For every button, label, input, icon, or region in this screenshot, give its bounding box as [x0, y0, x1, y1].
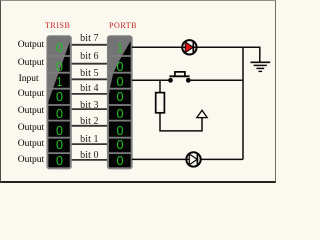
- label Input bit5: [19, 75, 39, 85]
- wire bit2 line TRISB-PORTB: [71, 125, 107, 127]
- value TRISB bit6 = 0: [49, 60, 69, 73]
- LED D2 (off): [186, 152, 201, 166]
- wire PORTB bit7 to LED D1 and ground: [132, 47, 260, 62]
- resistor R1: [156, 93, 165, 113]
- node bit 6: [69, 52, 109, 62]
- wire PORTB bit5 to switch: [132, 79, 171, 81]
- value PORTB bit3 = 0: [109, 107, 130, 120]
- wire bit0 line TRISB-PORTB: [71, 159, 107, 161]
- value TRISB bit3 = 0: [49, 107, 69, 120]
- value PORTB bit4 = 0: [109, 90, 130, 103]
- node bit 1: [69, 135, 109, 145]
- value TRISB bit7 = 0: [49, 41, 69, 54]
- label Output bit6: [18, 59, 44, 69]
- label TRISB: [45, 22, 70, 30]
- value TRISB bit0 = 0: [49, 154, 69, 167]
- value PORTB bit0 = 0: [109, 154, 130, 167]
- node bit 4: [69, 84, 109, 94]
- wire right vertical bus: [242, 47, 244, 159]
- wire bit1 line TRISB-PORTB: [71, 143, 107, 145]
- label Output bit3: [18, 107, 44, 117]
- value PORTB bit2 = 0: [109, 124, 130, 137]
- label PORTB: [109, 22, 137, 30]
- supply arrow (to +V): [197, 110, 207, 117]
- wire bit3 line TRISB-PORTB: [71, 108, 107, 110]
- wire resistor to supply arrow: [160, 113, 202, 131]
- register PORTB body: [108, 36, 132, 168]
- label Output bit4: [18, 90, 44, 100]
- value PORTB bit5 = 0: [109, 75, 130, 88]
- wire switch to vertical bus: [188, 79, 243, 81]
- node bit 7: [69, 34, 109, 44]
- value PORTB bit6 = 0: [109, 60, 130, 73]
- value PORTB bit7 = 1: [111, 41, 128, 54]
- wire bit4 line TRISB-PORTB: [71, 93, 107, 95]
- label Output bit7: [18, 41, 44, 51]
- label Output bit1: [18, 140, 44, 150]
- value TRISB bit1 = 0: [49, 138, 69, 151]
- register TRISB body: [47, 36, 70, 168]
- frame border: [0, 0, 276, 183]
- node bit 2: [69, 117, 109, 127]
- value TRISB bit4 = 0: [49, 90, 69, 103]
- node bit 5: [69, 69, 109, 79]
- wire PORTB bit0 to LED D2: [132, 158, 243, 160]
- value TRISB bit5 = 1: [51, 75, 67, 88]
- label Output bit2: [18, 124, 44, 134]
- label Output bit0: [18, 156, 44, 166]
- LED D1 (lit): [182, 40, 197, 54]
- push button SW1: [168, 72, 191, 83]
- wire bit5 line TRISB-PORTB: [71, 78, 107, 80]
- value PORTB bit1 = 0: [109, 138, 130, 151]
- wire resistor branch: [159, 80, 161, 92]
- ground symbol: [250, 62, 270, 71]
- wire bit7 line TRISB-PORTB: [71, 44, 107, 46]
- wire bit6 line TRISB-PORTB: [71, 63, 107, 65]
- node bit 0: [69, 151, 109, 161]
- node bit 3: [69, 101, 109, 111]
- value TRISB bit2 = 0: [49, 124, 69, 137]
